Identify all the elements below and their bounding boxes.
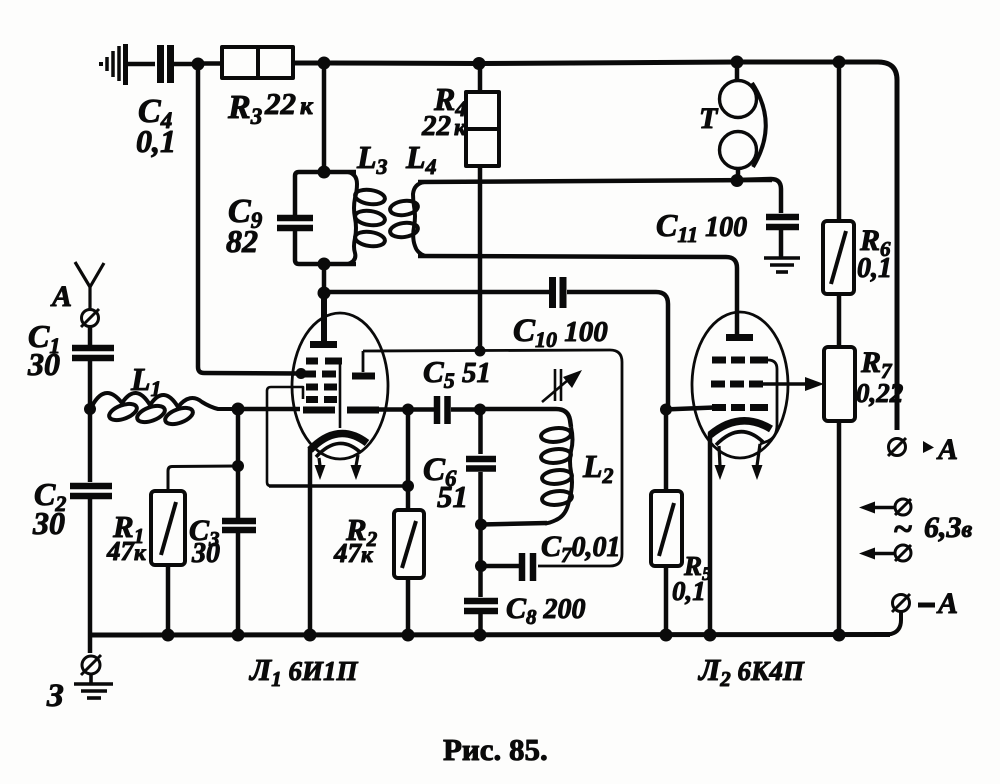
svg-text:А: А <box>936 433 958 466</box>
inductor L2 <box>540 427 572 524</box>
svg-text:0,1: 0,1 <box>136 123 176 159</box>
node: R5/grid2 junction <box>660 404 672 416</box>
wire L4 bottom to tube2 anode <box>418 256 737 334</box>
node: R1 top link <box>232 460 244 472</box>
resistor R1 47k <box>106 491 185 566</box>
tube1 cathode <box>310 434 367 450</box>
wire C2 to rail corner <box>88 499 93 653</box>
tube2 grid row1 <box>712 357 768 364</box>
svg-text:R3: R3 <box>227 89 262 129</box>
tank circuit loop wires (C9/L3) <box>295 172 356 215</box>
svg-text:22к: 22к <box>264 86 314 121</box>
node: C4/R3/grid-line junction <box>192 58 205 71</box>
svg-text:C11 100: C11 100 <box>656 207 747 247</box>
capacitor C3 30 <box>189 514 256 569</box>
wire transformer to C11 <box>737 179 781 213</box>
node: grid E / C5 / R2 junction <box>402 404 414 416</box>
wire antenna to C1 <box>88 326 93 345</box>
node: rail/C8 <box>474 629 487 642</box>
wire R7 to rail <box>837 421 842 636</box>
wire C8 to rail <box>478 614 483 636</box>
capacitor C11 100 <box>656 207 799 247</box>
node: rail/transformer junction <box>731 56 744 69</box>
node: rail/R5 <box>660 629 673 642</box>
resistor R2 47k <box>333 510 424 578</box>
wire cathode to ground rail <box>308 448 313 636</box>
tube2 heater leads with arrows <box>719 446 720 466</box>
node: rail/tank junction <box>318 57 331 70</box>
svg-text:30: 30 <box>32 505 65 541</box>
terminal -A <box>888 587 958 635</box>
resistor R6 0,1 <box>823 221 892 294</box>
wire from C4-node down to grid B <box>198 64 300 374</box>
ground symbol bottom-left <box>74 674 113 698</box>
antenna terminal <box>82 310 99 327</box>
wire C10 to tube2 grid <box>567 292 668 410</box>
wire L4 top to transformer/C11 <box>418 180 772 182</box>
svg-text:82: 82 <box>226 223 258 259</box>
node: rail/R1 <box>162 629 175 642</box>
wire C5 to vertical line <box>451 407 481 412</box>
ground terminal З <box>82 656 100 674</box>
svg-text:З: З <box>46 678 64 714</box>
wire R6 to R7 <box>837 294 842 348</box>
L2 adjustable-core arrow <box>542 369 568 402</box>
potentiometer R7 0,22 <box>824 346 903 421</box>
svg-text:Л2 6К4П: Л2 6К4П <box>697 652 805 691</box>
svg-text:0,1: 0,1 <box>672 576 706 606</box>
wire C4 to node <box>174 62 200 67</box>
wire rail to R6 <box>837 62 842 222</box>
tube1 heptode anode lead and plate <box>321 293 327 341</box>
wire R4 down to triode-plate node <box>478 166 483 352</box>
wire C11 to ground <box>779 230 784 258</box>
wire R1 to rail <box>166 565 171 636</box>
resistor R4 22k <box>421 81 499 166</box>
node: C5 / C6 branch junction <box>474 404 486 416</box>
terminal +A <box>888 433 958 466</box>
tube Л1 6И1П envelope <box>292 313 388 459</box>
wire tank to rail <box>322 62 327 174</box>
wire tank bottom to anode node <box>322 264 327 294</box>
inductor L4 <box>389 182 425 256</box>
inductor L1 <box>90 393 236 427</box>
node: rail/tube1 cathode <box>304 629 317 642</box>
node: antenna/L1 <box>84 403 96 415</box>
tube2 grid row2 with AGC arrow <box>711 381 763 388</box>
svg-text:А: А <box>50 280 72 313</box>
tube1 control grid row E (dashed) <box>303 407 379 414</box>
resistor R5 0,1 <box>651 491 712 606</box>
wire anode node to C10 <box>324 290 549 295</box>
wire: top supply rail <box>293 62 897 430</box>
svg-text:C8 200: C8 200 <box>506 592 586 629</box>
tube1 grid row A <box>306 358 342 365</box>
svg-text:Т: Т <box>699 102 719 135</box>
capacitor C6 51 <box>423 452 496 514</box>
svg-text:Л1 6И1П: Л1 6И1П <box>248 652 359 691</box>
node: rail/R4 junction <box>473 57 486 70</box>
node: L2 bottom / vertical <box>475 519 487 531</box>
inductor L3 <box>348 172 386 264</box>
node: cathode-loop / R2 <box>402 480 414 492</box>
node: tank top <box>318 166 331 179</box>
svg-text:L3: L3 <box>356 139 388 179</box>
wire: bottom ground rail <box>90 632 890 638</box>
tube1 grid row C <box>306 384 337 391</box>
tube2 anode plate <box>726 334 753 341</box>
svg-text:L2: L2 <box>582 448 614 488</box>
wire L2 bottom to vertical <box>481 523 547 525</box>
node: rail/tube2 cathode <box>704 629 717 642</box>
tube1 heater leads with arrows <box>319 458 320 466</box>
wire grid C/D loop to cathode-resistor node <box>267 387 303 486</box>
capacitor C7 0,01 <box>485 530 621 581</box>
wire R1 link <box>168 466 238 492</box>
node: triode plate wire / R4 line <box>475 346 486 357</box>
tube1 grid row D <box>306 396 337 403</box>
wire R2 to rail <box>406 578 411 636</box>
svg-text:А: А <box>936 587 958 620</box>
svg-text:22к: 22к <box>421 110 467 142</box>
node: rail/R7 <box>833 629 846 642</box>
wire C1 to L1 node <box>88 361 93 412</box>
wire grid-E node down to R2 <box>406 409 411 511</box>
wire node to R5 <box>664 409 669 492</box>
tube1 heater <box>316 443 361 457</box>
svg-text:~: ~ <box>893 511 912 548</box>
svg-text:C5 51: C5 51 <box>423 354 491 393</box>
heater terminal 2 <box>859 545 911 561</box>
wire junction to L2 top <box>480 409 571 427</box>
node: rail/C3 <box>232 629 245 642</box>
node: L1 / grid wire <box>232 403 245 416</box>
capacitor C4 <box>136 45 176 159</box>
resistor R3 22k <box>222 47 314 129</box>
capacitor C5 51 <box>423 354 491 424</box>
node: C7 junction <box>475 560 487 572</box>
svg-text:Рис. 85.: Рис. 85. <box>443 732 548 767</box>
wire C6 down through nodes to C8 <box>478 472 483 597</box>
wire ground to C4 <box>128 62 155 67</box>
wire C3 to rail <box>236 533 241 636</box>
wire L1 to grid E <box>236 407 300 412</box>
node: grid B entry <box>296 368 307 379</box>
capacitor C9 <box>226 193 313 259</box>
tube1 inner screen lead <box>339 364 342 428</box>
svg-text:51: 51 <box>437 479 468 514</box>
node: tank bottom <box>318 258 331 271</box>
wire grid E to C5 node <box>379 407 434 412</box>
ground below C11 <box>764 258 800 272</box>
transformer (phones) T <box>699 62 766 180</box>
svg-text:C10 100: C10 100 <box>513 313 608 352</box>
tube Л2 6К4П envelope <box>692 312 788 458</box>
wire triode plate to L2 box right side and C7 <box>363 350 622 566</box>
wire grid row1 to cathode <box>760 360 777 444</box>
wire rail to R4 <box>478 63 483 93</box>
node: tube1 anode / C10 wire <box>318 287 331 300</box>
antenna A <box>50 262 104 313</box>
ground (aerial chassis) top-left <box>101 44 126 85</box>
svg-text:47к: 47к <box>333 538 374 568</box>
svg-text:30: 30 <box>191 538 220 569</box>
node: rail/R2 <box>402 629 415 642</box>
capacitor C10 100 <box>513 277 608 352</box>
svg-text:L1: L1 <box>130 361 162 401</box>
tube2 grid row3 <box>712 404 768 411</box>
vertical line through C6 <box>478 409 483 454</box>
svg-text:0,22: 0,22 <box>856 378 903 408</box>
wire grid row3 to R5 node <box>664 408 714 410</box>
svg-text:0,1: 0,1 <box>857 253 892 284</box>
svg-text:6,3в: 6,3в <box>924 511 973 544</box>
node: rail/R6 junction <box>833 56 846 69</box>
tube2 cathode <box>710 421 771 435</box>
svg-text:L4: L4 <box>405 139 437 179</box>
svg-text:30: 30 <box>27 346 60 382</box>
capacitor C1 30 <box>27 318 114 382</box>
tube1 grid row B <box>303 371 336 378</box>
capacitor C2 30 <box>32 476 112 541</box>
wire grid node down through C3 <box>236 409 241 518</box>
svg-text:C70,01: C70,01 <box>541 530 621 567</box>
tube2 heater <box>716 432 763 445</box>
wire node to R3 <box>198 61 223 66</box>
wire C2 branch <box>88 409 93 482</box>
svg-text:47к: 47к <box>106 536 147 566</box>
heater terminal 1 <box>859 499 911 515</box>
wire cathode to rail <box>708 433 713 636</box>
wire R5 to rail <box>664 566 669 636</box>
node: transformer bottom <box>731 174 744 187</box>
tube1 triode plate <box>362 351 365 372</box>
capacitor C8 200 <box>464 592 586 629</box>
